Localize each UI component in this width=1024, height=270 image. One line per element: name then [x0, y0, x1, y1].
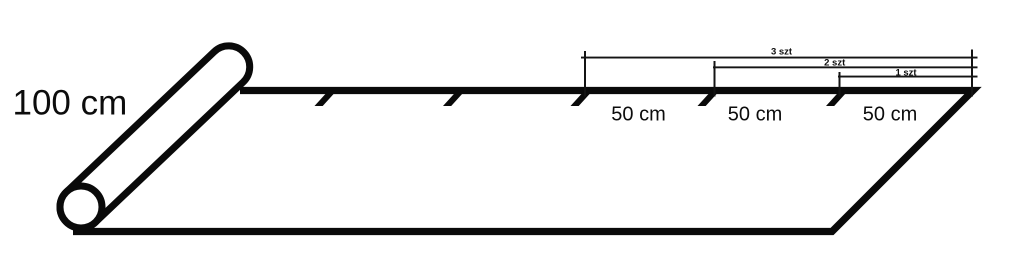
svg-text:2 szt: 2 szt — [824, 57, 846, 68]
tick mark 2 on top edge — [443, 93, 463, 106]
tick mark 1 on top edge — [315, 93, 335, 106]
dimension line 1 szt — [838, 76, 978, 78]
dimension line 2 szt — [713, 66, 978, 68]
svg-text:1 szt: 1 szt — [895, 67, 917, 78]
svg-text:100 cm: 100 cm — [13, 84, 128, 123]
tick mark 3 on top edge — [571, 93, 591, 106]
svg-text:50 cm: 50 cm — [863, 103, 917, 125]
tick mark 5 on top edge — [826, 93, 846, 106]
sheet outline (top edge, right diagonal edge, bottom edge) — [73, 91, 973, 232]
dimension vertical at x=714.5 — [714, 61, 716, 97]
dimension line 3 szt — [581, 57, 978, 59]
dimension vertical at x=839.5 — [839, 72, 841, 97]
roll body (capsule) — [51, 37, 258, 236]
svg-text:50 cm: 50 cm — [728, 103, 782, 125]
svg-text:50 cm: 50 cm — [611, 103, 665, 125]
svg-text:3 szt: 3 szt — [771, 47, 793, 58]
roll end circle — [60, 186, 102, 228]
dimension vertical at x=972 — [971, 50, 973, 97]
dimension vertical at x=585 — [584, 51, 586, 97]
tick mark 4 on top edge — [698, 93, 718, 106]
